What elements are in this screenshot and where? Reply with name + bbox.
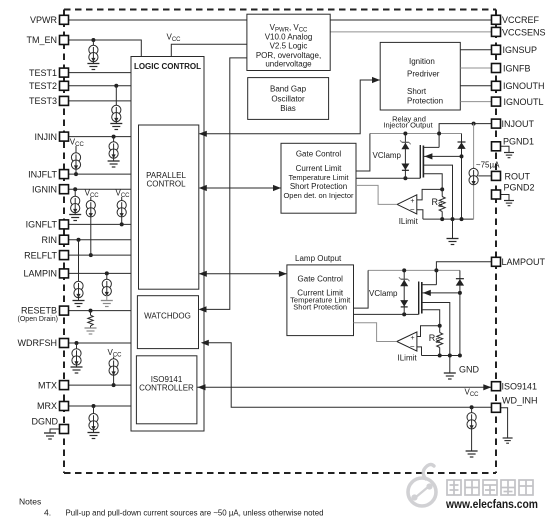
svg-text:Pull-up and pull-down current: Pull-up and pull-down current sources ar… — [66, 509, 324, 518]
svg-text:GND: GND — [459, 365, 480, 375]
wire TM_EN to logic control top — [69, 40, 142, 57]
wire VPWR to supply block — [69, 19, 247, 21]
wire ignition to IGNFB — [460, 67, 491, 69]
node IGNIN pulldown tap — [73, 187, 77, 191]
node injector drain rail at VClamp — [403, 132, 407, 136]
pin IGNIN — [32, 184, 69, 194]
svg-text:4.: 4. — [44, 508, 51, 518]
pin ISO9141 — [492, 382, 538, 392]
block band gap oscillator bias — [248, 78, 329, 120]
svg-text:Short Protection: Short Protection — [293, 302, 347, 311]
ground lamp power stage — [444, 356, 456, 380]
node lamp drain rail at VClamp — [402, 268, 406, 272]
node injector body to diode — [460, 154, 464, 158]
svg-text:VPWR: VPWR — [30, 15, 58, 25]
svg-text:VClamp: VClamp — [369, 289, 398, 298]
current source TM_EN pull-down — [89, 40, 98, 64]
pin ROUT — [492, 171, 531, 181]
svg-text:ILimit: ILimit — [399, 217, 419, 226]
current source IGNIN pull-down — [71, 189, 80, 214]
svg-text:TEST1: TEST1 — [29, 68, 57, 78]
pin RELFLT — [24, 250, 68, 260]
svg-text:RELFLT: RELFLT — [24, 250, 57, 260]
arrow into lamp gate control — [279, 271, 287, 277]
watermark text 电子发烧友 — [447, 480, 533, 495]
svg-text:Protection: Protection — [407, 97, 443, 106]
ground TEST2 pull-down — [110, 124, 122, 130]
current source RELFLT pull-up — [86, 197, 95, 255]
block power supply VPWR VCC POR — [247, 14, 330, 70]
wire ignition to IGNOUTH — [460, 85, 491, 87]
node lamp drain rail at MOSFET drain — [434, 268, 438, 272]
node IGNFLT pull-up tap — [120, 222, 124, 226]
node lamp sense top — [438, 324, 442, 328]
wire lamp drain rail — [368, 269, 460, 271]
pin TEST1 — [29, 68, 69, 78]
ground RESETB pull-down — [85, 328, 97, 334]
block ISO9141 CONTROLLER — [136, 356, 197, 424]
current source LAMPIN pull-down — [102, 273, 111, 300]
pin RESETB (Open Drain) — [18, 305, 69, 322]
label Relay and Injector Output — [383, 114, 433, 129]
pin WD_INH — [492, 395, 538, 412]
node INJIN pulldown tap — [112, 135, 116, 139]
zener VClamp injector (back-to-back clamp) — [400, 134, 411, 179]
svg-text:LAMPIN: LAMPIN — [23, 269, 57, 279]
current source INJIN pull-down — [109, 137, 118, 161]
ground IGNIN pull-down — [69, 215, 81, 221]
wire parallel control to ignition predriver — [200, 80, 380, 134]
pin PGND1 — [492, 136, 535, 151]
svg-text:TM_EN: TM_EN — [26, 35, 57, 45]
wire INJIN to parallel control — [69, 136, 139, 138]
arrow into ISO9141 controller — [198, 384, 206, 390]
svg-text:Short: Short — [407, 87, 427, 96]
svg-text:MRX: MRX — [37, 401, 57, 411]
wire INJFLT to parallel control — [69, 173, 139, 175]
svg-text:−: − — [410, 205, 415, 214]
svg-text:WDRFSH: WDRFSH — [18, 338, 58, 348]
current source WDRFSH pull-down — [72, 343, 81, 367]
wire IGNFLT to parallel control — [69, 223, 139, 225]
svg-text:RESETB: RESETB — [21, 305, 57, 315]
wire WD_INH to logic control — [206, 343, 492, 407]
pin VPWR — [30, 15, 69, 25]
wire RESETB to watchdog — [69, 310, 138, 312]
svg-text:IGNFB: IGNFB — [503, 63, 531, 73]
current source INJFLT pull-up — [71, 146, 80, 174]
svg-text:Bias: Bias — [280, 104, 296, 113]
svg-text:−: − — [410, 342, 415, 351]
ground MRX pull-down — [88, 433, 100, 439]
svg-text:IGNOUTH: IGNOUTH — [503, 81, 545, 91]
pin IGNFB — [492, 63, 531, 73]
pin MRX — [37, 401, 69, 411]
wire lamp gate drive — [354, 313, 419, 315]
arrow into watchdog — [199, 306, 207, 312]
wire injector open-detect riser — [356, 134, 370, 172]
node MRX pulldown tap — [92, 404, 96, 408]
resistor RS injector — [439, 189, 445, 219]
arrow into parallel control (lamp path) — [199, 271, 207, 277]
wire ignition to IGNOUTL — [460, 101, 491, 103]
arrow into parallel control (ignition path) — [199, 131, 207, 137]
pin IGNSUP — [492, 45, 538, 55]
node MTX pull-up tap — [112, 383, 116, 387]
op-amp ILimit comparator injector — [397, 189, 442, 219]
svg-text:RIN: RIN — [42, 235, 58, 245]
wire parallel control to injector gate control (bidirectional) — [200, 187, 281, 189]
arrow into parallel control (injector path) — [199, 185, 207, 191]
ground WDRFSH pull-down — [71, 367, 83, 373]
svg-text:IGNFLT: IGNFLT — [26, 220, 58, 230]
pin PGND2 — [492, 183, 535, 199]
svg-text:PGND1: PGND1 — [503, 136, 534, 146]
svg-text:ILimit: ILimit — [398, 354, 418, 363]
notes text — [19, 497, 324, 518]
pin INJOUT — [492, 119, 535, 129]
svg-text:Band Gap: Band Gap — [270, 85, 307, 94]
svg-text:V2.5 Logic: V2.5 Logic — [270, 42, 308, 51]
node injector gate at VClamp — [403, 176, 407, 180]
wire lamp source rail — [422, 355, 460, 357]
svg-text:VCCSENS: VCCSENS — [502, 27, 546, 37]
pin TEST2 — [29, 81, 69, 91]
pin IGNOUTH — [492, 81, 545, 91]
op-amp ILimit comparator lamp — [397, 326, 440, 356]
current source MRX pull-down — [89, 406, 98, 433]
node INJOUT current source tap — [472, 122, 476, 126]
wire ISO9141 controller to ISO9141 pin — [197, 386, 492, 388]
node INJFLT pull-up tap — [74, 172, 78, 176]
ground TM_EN pull-down — [87, 64, 99, 70]
svg-text:ISO9141: ISO9141 — [502, 382, 538, 392]
resistor RESETB open-drain pull-down — [88, 311, 93, 328]
svg-text:undervoltage: undervoltage — [265, 60, 312, 69]
wire IGNIN to parallel control — [69, 188, 139, 190]
wire TEST1 to logic control — [69, 72, 132, 74]
svg-text:WD_INH: WD_INH — [502, 395, 538, 405]
block lamp gate control — [287, 265, 354, 336]
ground PGND2 pin — [501, 195, 515, 206]
arrow into ISO9141 pin — [483, 384, 491, 390]
current source MTX pull-up — [109, 357, 118, 386]
svg-text:Gate Control: Gate Control — [296, 150, 342, 159]
pin VCCSENS — [492, 27, 546, 37]
current source RIN pull-down — [74, 240, 83, 301]
svg-text:INJFLT: INJFLT — [28, 169, 57, 179]
diode lamp body diode — [456, 270, 464, 355]
block ignition predriver — [380, 42, 460, 110]
wire VCC into logic control and supply block — [171, 44, 247, 57]
ground LAMPIN pull-down — [101, 301, 113, 307]
node injector drain rail at MOSFET drain — [437, 132, 441, 136]
ground RIN pull-down — [73, 301, 85, 307]
svg-text:Lamp Output: Lamp Output — [295, 254, 342, 263]
svg-text:Predriver: Predriver — [407, 70, 440, 79]
svg-text:+: + — [411, 335, 415, 342]
svg-text:www.elecfans.com: www.elecfans.com — [445, 499, 538, 511]
wire INJOUT from drain — [439, 124, 491, 148]
node lamp gate at VClamp — [402, 312, 406, 316]
node source rail at RS — [440, 217, 444, 221]
pin IGNFLT — [26, 220, 69, 230]
wire injector source rail — [423, 218, 474, 220]
svg-text:Temperature Limit: Temperature Limit — [288, 173, 349, 182]
ground INJIN pull-down — [108, 161, 120, 167]
transistor Q2 lamp output MOSFET — [419, 282, 460, 356]
pin DGND — [32, 416, 69, 433]
pin LAMPIN — [23, 269, 68, 279]
node TM_EN pulldown tap — [91, 38, 95, 42]
pin INJIN — [35, 132, 69, 142]
svg-text:Notes: Notes — [19, 497, 41, 507]
wire supply block to VCCSENS — [330, 31, 491, 33]
ground PGND1 pin — [501, 146, 515, 157]
current source WD_INH pull-down — [467, 407, 476, 451]
node lamp rail at RS — [438, 354, 442, 358]
svg-text:CONTROLLER: CONTROLLER — [139, 384, 194, 393]
svg-text:Current Limit: Current Limit — [296, 164, 343, 173]
svg-text:MTX: MTX — [38, 380, 57, 390]
svg-text:PGND2: PGND2 — [504, 183, 535, 193]
svg-text:DGND: DGND — [32, 416, 59, 426]
node source rail at MOSFET source — [451, 217, 455, 221]
svg-text:LAMPOUT: LAMPOUT — [502, 257, 546, 267]
diode injector body diode — [457, 134, 465, 220]
node TEST2 pulldown tap — [114, 84, 118, 88]
ground DGND — [44, 429, 60, 439]
ground WD_INH pull-down — [466, 451, 478, 457]
svg-text:VClamp: VClamp — [373, 151, 402, 160]
svg-text:+: + — [410, 198, 414, 205]
node source rail at diode — [460, 217, 464, 221]
node LAMPIN pulldown tap — [105, 271, 109, 275]
block LOGIC CONTROL (outer) — [131, 57, 204, 432]
wire injector gate drive — [356, 177, 420, 179]
wire lamp open-detect riser — [354, 270, 369, 308]
svg-text:(Open Drain): (Open Drain) — [18, 316, 58, 323]
wire LAMPIN to parallel control — [69, 272, 139, 274]
node WD_INH pulldown tap — [470, 405, 474, 409]
node RELFLT pull-up tap — [89, 253, 93, 257]
wire ILimit output to injector gate control — [356, 185, 397, 204]
node injector sense top — [440, 187, 444, 191]
node WDRFSH pulldown tap — [75, 341, 79, 345]
watermark logo elecfans — [408, 465, 436, 507]
wire parallel control to lamp gate control (bidirectional) — [200, 273, 287, 275]
node RESETB pulldown tap — [89, 309, 93, 313]
pin INJFLT — [28, 169, 68, 179]
svg-text:IGNOUTL: IGNOUTL — [504, 97, 544, 107]
block PARALLEL CONTROL — [139, 125, 199, 289]
pin TM_EN — [26, 35, 68, 45]
svg-text:VCCREF: VCCREF — [502, 15, 540, 25]
svg-text:Oscillator: Oscillator — [271, 94, 305, 103]
wire RELFLT to parallel control — [69, 254, 139, 256]
svg-text:ROUT: ROUT — [505, 171, 531, 181]
wire LAMPOUT from drain — [436, 262, 491, 285]
pin RIN — [42, 235, 69, 245]
svg-text:WATCHDOG: WATCHDOG — [144, 312, 191, 321]
wire MTX to ISO9141 controller — [69, 384, 137, 386]
node RIN pulldown tap — [77, 238, 81, 242]
node lamp rail at diode — [458, 354, 462, 358]
pin WDRFSH — [18, 338, 69, 348]
wire supply block to VCCREF — [330, 19, 491, 21]
svg-text:TEST2: TEST2 — [29, 81, 57, 91]
zener VClamp lamp (back-to-back clamp) — [399, 270, 410, 314]
node lamp body to diode — [458, 291, 462, 295]
svg-text:INJOUT: INJOUT — [502, 119, 535, 129]
pin LAMPOUT — [492, 257, 546, 267]
node lamp rail at MOSFET source — [448, 354, 452, 358]
current source ~75uA injector open detect — [469, 124, 478, 220]
wire POR bus supply block to watchdog — [203, 58, 247, 310]
ground WD_INH pin — [501, 408, 513, 443]
svg-text:LOGIC CONTROL: LOGIC CONTROL — [134, 62, 201, 71]
svg-text:INJIN: INJIN — [35, 132, 58, 142]
wire ROUT stub — [478, 175, 491, 177]
svg-text:IGNSUP: IGNSUP — [503, 45, 538, 55]
svg-text:Short Protection: Short Protection — [290, 182, 347, 191]
block WATCHDOG — [137, 296, 198, 349]
wire TEST3 to logic control — [69, 100, 132, 102]
svg-text:V10.0 Analog: V10.0 Analog — [265, 32, 313, 41]
wire injector drain rail — [370, 133, 462, 135]
arrow into injector gate control — [273, 185, 281, 191]
svg-text:Injector Output: Injector Output — [383, 121, 433, 130]
current source TEST2 pull-down — [112, 86, 121, 124]
wire TEST2 to logic control — [69, 85, 132, 87]
wire ignition to IGNSUP — [460, 49, 491, 51]
pin MTX — [38, 380, 69, 390]
transistor Q1 injector output MOSFET — [420, 145, 461, 219]
wire RIN to parallel control — [69, 239, 139, 241]
svg-text:Ignition: Ignition — [409, 57, 435, 66]
svg-text:TEST3: TEST3 — [29, 96, 57, 106]
svg-text:~75µA: ~75µA — [476, 160, 500, 169]
arrow into ignition predriver — [372, 77, 380, 83]
wire MRX to ISO9141 controller — [69, 405, 137, 407]
pin IGNOUTL — [492, 97, 544, 107]
IC boundary dashed border — [64, 10, 496, 474]
svg-text:IGNIN: IGNIN — [32, 184, 57, 194]
svg-text:CONTROL: CONTROL — [146, 180, 186, 189]
ground injector power stage — [447, 219, 459, 244]
resistor RS lamp — [437, 326, 443, 356]
current source IGNFLT pull-up — [117, 197, 126, 224]
wire WDRFSH to watchdog — [69, 342, 138, 344]
pin TEST3 — [29, 96, 69, 106]
wire ILimit output to lamp gate control — [354, 323, 397, 342]
svg-text:Gate Control: Gate Control — [298, 275, 344, 284]
pin VCCREF — [492, 15, 540, 25]
arrow into logic control WD_INH — [201, 340, 209, 346]
svg-text:Open det. on Injector: Open det. on Injector — [283, 191, 354, 200]
block injector gate control — [281, 143, 356, 213]
